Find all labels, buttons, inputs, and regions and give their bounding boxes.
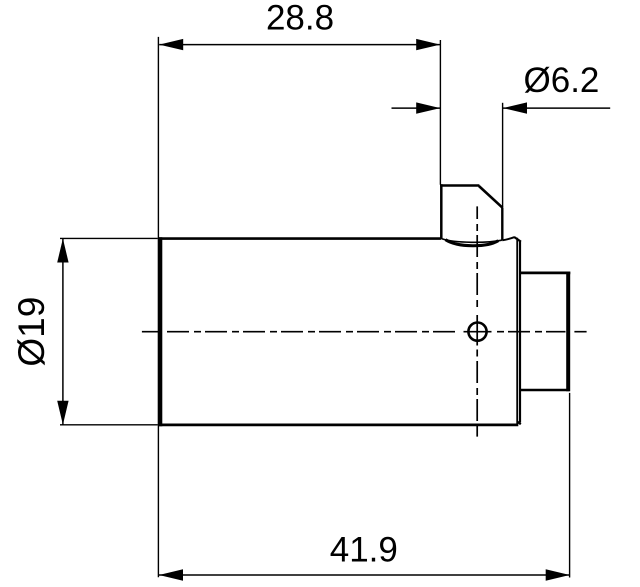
dimension 28.8: extension line right: [439, 40, 441, 185]
dimension D6.2: dimension line right part: [503, 107, 610, 109]
dimension 41.9: dimension line: [159, 574, 570, 576]
dimension D19: bottom arrowhead: [57, 401, 68, 425]
dimension 28.8: right arrowhead: [416, 39, 440, 50]
dimension 28.8: dimension line: [159, 44, 440, 46]
dimension 41.9: extension line right: [569, 393, 571, 578]
boss right end face edge: [566, 272, 570, 391]
tab base intersection curve upper: [442, 239, 502, 243]
dimension D6.2: dimension line left part: [392, 107, 441, 109]
dimension D19: extension line bottom: [60, 424, 158, 426]
svg-text:Ø19: Ø19: [11, 297, 52, 367]
dimension 28.8: extension line left (shared with 41.9): [157, 37, 159, 577]
tab right edge: [501, 208, 503, 241]
svg-text:28.8: 28.8: [266, 0, 334, 38]
tab top edge: [440, 184, 479, 187]
wire: horizontal centerline of main cylinder: [142, 331, 587, 333]
right face bottom corner chamfer: [518, 422, 521, 425]
dimension D19: dimension line: [62, 239, 64, 425]
right face top corner chamfer: [514, 237, 521, 242]
wire: vertical centerline of boss/tab axis: [476, 206, 478, 436]
tab base intersection curve lower: [446, 240, 499, 246]
right face chamfer edge line: [519, 241, 521, 423]
svg-text:41.9: 41.9: [330, 531, 398, 570]
dimension 41.9: left arrowhead: [159, 569, 183, 580]
body left end face edge: [159, 237, 162, 426]
dimension D6.2: left arrowhead pointing right: [416, 102, 440, 113]
main cylinder body outline: [159, 237, 518, 426]
dimension 41.9: right arrowhead: [546, 569, 570, 580]
tab chamfer edge: [479, 186, 503, 208]
dimension D19: top arrowhead: [57, 239, 68, 263]
tab (6.2mm boss) on top: [440, 184, 503, 246]
right face edge line: [516, 238, 518, 426]
boss bottom edge: [520, 389, 570, 392]
boss top edge: [520, 271, 571, 274]
dimension D6.2: extension line right: [502, 103, 504, 207]
body top silhouette line: [159, 237, 441, 240]
cross hole circle: [468, 323, 486, 341]
boss (small cylinder) at right end: [520, 272, 571, 391]
top silhouette arc right of tab: [502, 237, 514, 240]
dimension D19: extension line top: [60, 237, 158, 239]
body bottom silhouette line: [159, 423, 518, 426]
main cylinder right end face: [502, 237, 521, 426]
dimension D6.2: right arrowhead pointing left: [503, 102, 527, 113]
tab left edge: [440, 184, 443, 239]
dimension 28.8: left arrowhead: [159, 39, 183, 50]
svg-text:Ø6.2: Ø6.2: [524, 61, 600, 100]
